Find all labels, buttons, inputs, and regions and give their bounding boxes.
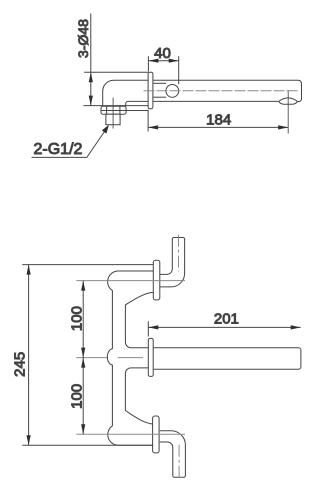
leader line for 2-G1/2 <box>32 132 105 158</box>
top valve flange <box>153 260 160 300</box>
leader arrowhead <box>102 125 109 134</box>
dimension 184 arrow right <box>278 125 288 129</box>
dimension 100 upper line <box>82 281 84 358</box>
svg-text:184: 184 <box>206 111 231 128</box>
spout neck lower line <box>153 96 166 98</box>
outlet centerline / 184 right extension <box>287 90 289 133</box>
dimension 100 lower arrow down <box>81 424 85 434</box>
dimension 3-Ø48 vertical line <box>90 14 92 106</box>
dimension 201 arrow left <box>148 325 158 329</box>
dimension 3-Ø48 bottom extension line <box>83 105 148 107</box>
dimension 100 upper arrow down <box>81 348 85 358</box>
wall flange (side view) <box>148 72 153 108</box>
spout flange (plan) <box>148 338 153 376</box>
bottom valve diagonal and manifold right edge <box>125 368 153 424</box>
dimension 201 left extension <box>147 321 149 336</box>
svg-text:100: 100 <box>68 384 85 409</box>
dimension 201 line <box>148 326 300 328</box>
svg-text:3-Ø48: 3-Ø48 <box>75 19 91 58</box>
dimension 40 arrow right <box>169 59 179 63</box>
joint circle <box>166 85 179 98</box>
valve centerline bottom <box>76 433 185 435</box>
spout bottom edge <box>153 100 279 102</box>
top lever pipe <box>160 238 185 287</box>
valve centerline top <box>76 280 185 282</box>
dimension 40 line <box>148 60 178 62</box>
dimension 245 arrow down <box>27 435 31 445</box>
hex nut facet right <box>119 106 121 114</box>
svg-text:201: 201 <box>214 310 239 327</box>
dimension 184 arrow left <box>148 125 158 129</box>
dimension 3-Ø48 arrow up <box>89 72 93 82</box>
dimension 245 line <box>28 265 30 446</box>
hex nut facet left <box>106 106 108 114</box>
dimension 3-Ø48 arrow down <box>89 96 93 106</box>
svg-text:245: 245 <box>11 352 28 377</box>
outlet bump upper arc <box>279 98 298 102</box>
dimension 100 lower line <box>82 358 84 435</box>
dimension 40 left extension <box>147 56 149 71</box>
dimension 40 arrow left <box>148 59 158 63</box>
top lever centerline <box>178 235 180 272</box>
dimension 184 left extension <box>147 110 149 132</box>
svg-text:2-G1/2: 2-G1/2 <box>34 141 83 158</box>
body left boundary from top valve to bottom valve <box>107 271 153 445</box>
dimension 245 arrow up <box>27 265 31 275</box>
dimension 245 bottom extension <box>22 444 153 446</box>
svg-text:40: 40 <box>154 45 171 62</box>
dimension 40 right extension <box>178 56 180 84</box>
svg-text:100: 100 <box>68 306 85 331</box>
spout neck upper line <box>153 82 166 84</box>
spout pipe (plan) <box>153 348 301 369</box>
elbow inner bottom edge <box>126 101 148 106</box>
hex nut mid line <box>101 110 148 112</box>
dimension 201 arrow right <box>291 325 301 329</box>
dimension 100 lower arrow up <box>81 358 85 368</box>
bottom lever centerline <box>178 445 180 480</box>
spout centerline <box>144 90 299 92</box>
top valve diagonal and manifold right edge <box>125 292 153 347</box>
dimension 245 top extension <box>22 264 153 266</box>
spout centerline (plan) <box>76 357 143 359</box>
dimension 3-Ø48 top extension line <box>84 71 148 73</box>
bottom lever pipe <box>160 431 186 478</box>
dimension 100 upper arrow up <box>81 281 85 291</box>
spout outline: elbow, top edge, tip <box>103 80 302 106</box>
nut centerline <box>112 98 114 129</box>
dimension 184 line <box>148 126 288 128</box>
hex nut <box>101 106 126 114</box>
outlet bump lower edge <box>279 101 298 104</box>
bottom valve flange <box>153 416 160 453</box>
threaded stub <box>106 114 120 125</box>
